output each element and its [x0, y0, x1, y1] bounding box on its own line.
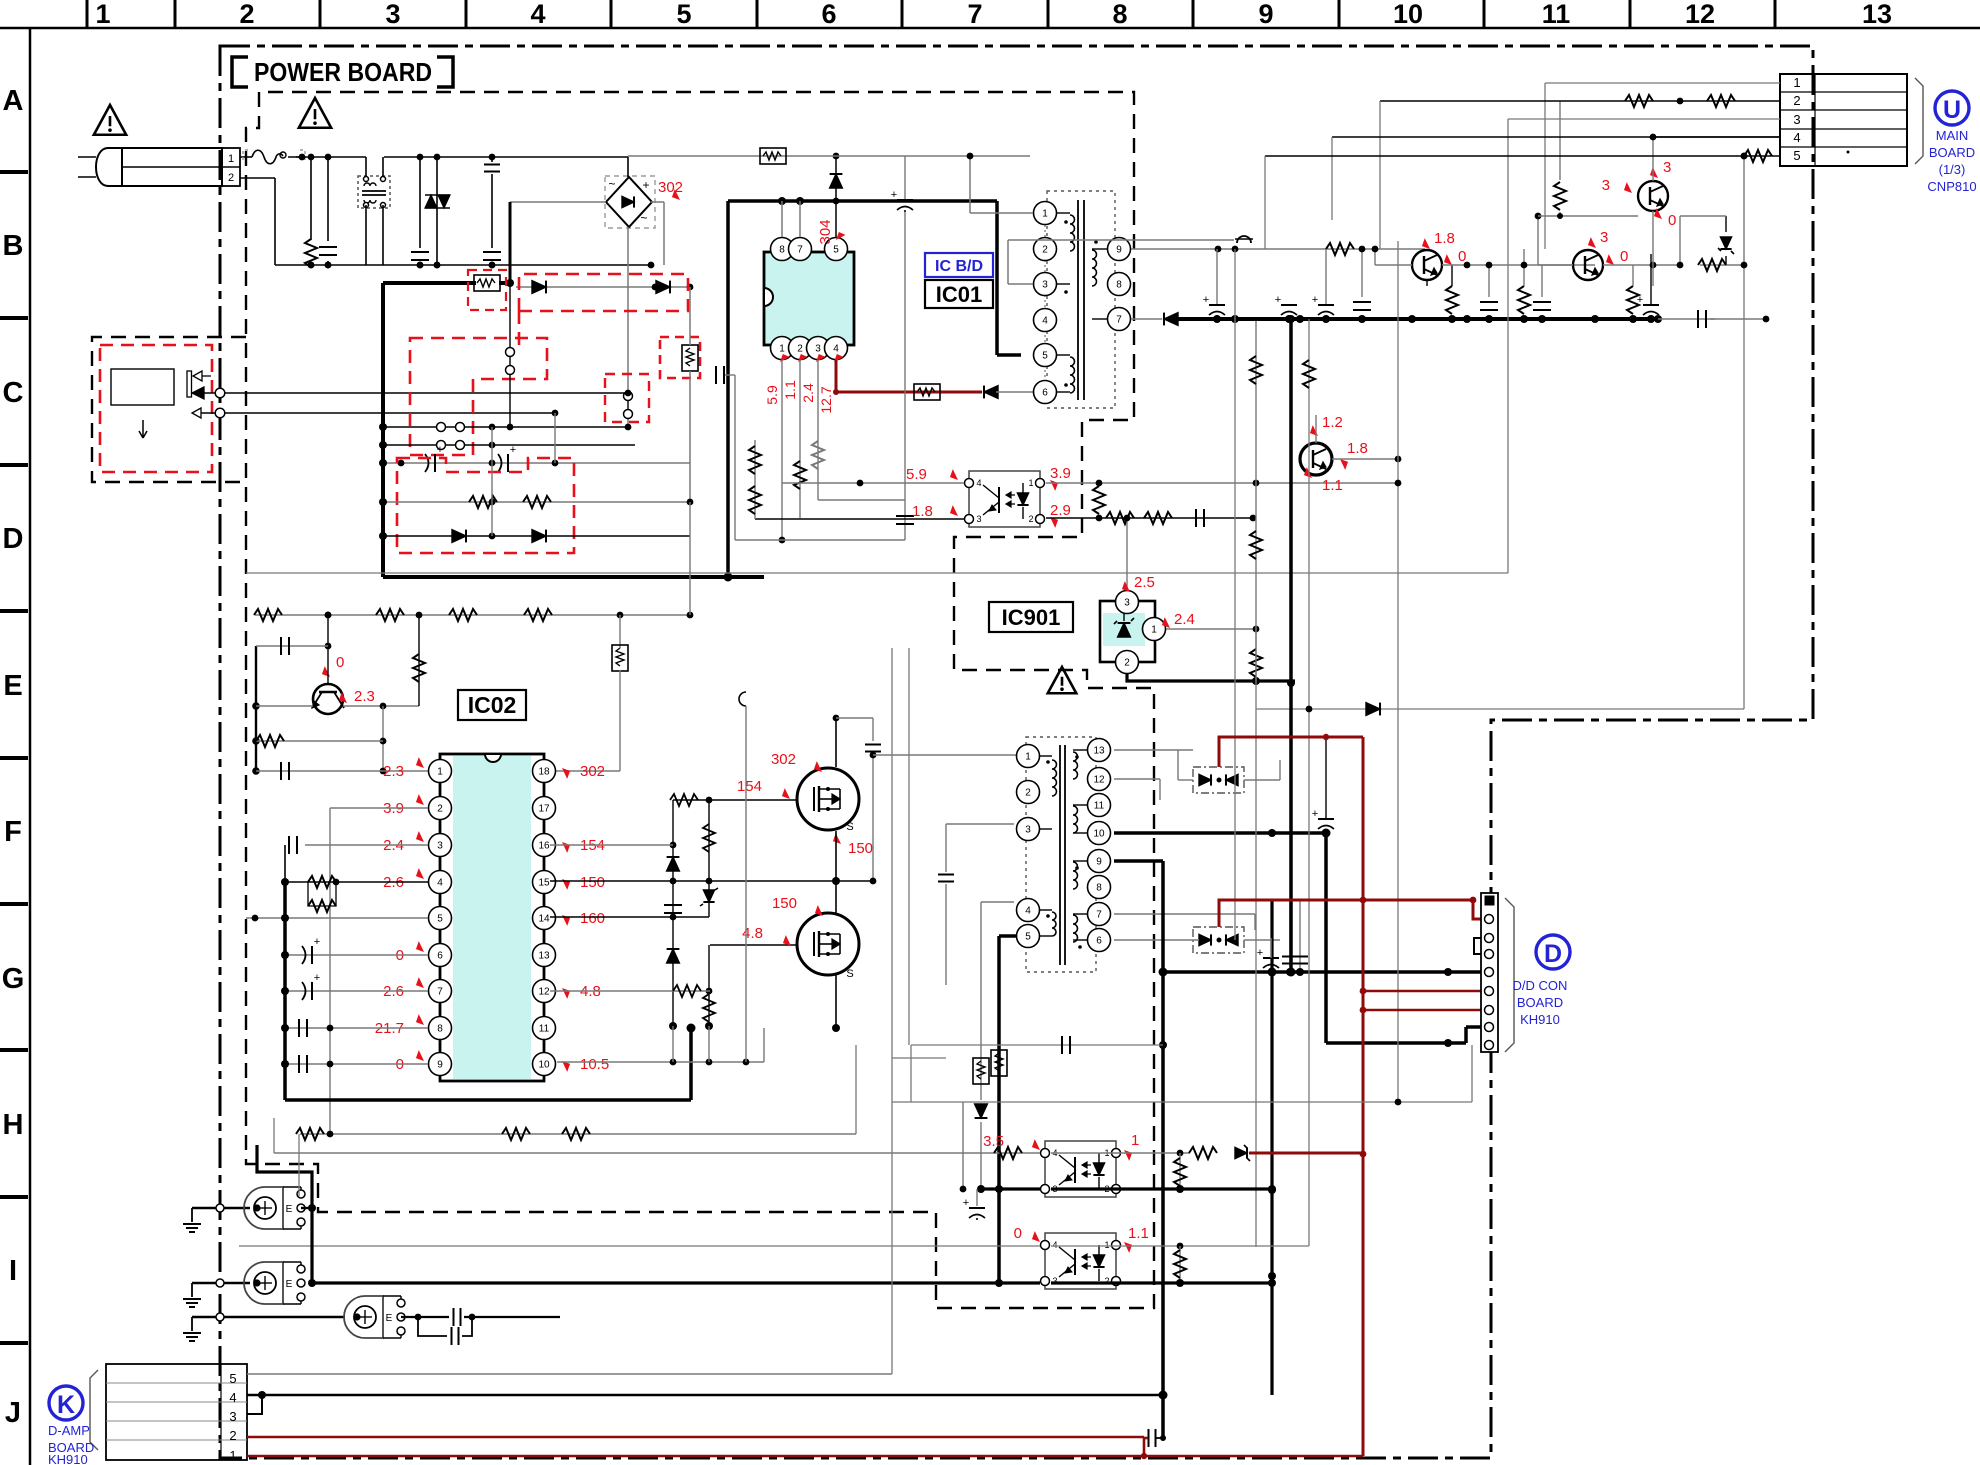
resistor x1180 b [1179, 1246, 1181, 1281]
wire Q3 collector right [1442, 264, 1595, 266]
IC901 body [1100, 601, 1155, 662]
title POWER BOARD [232, 57, 248, 87]
svg-text:A: A [3, 85, 24, 117]
svg-text:5: 5 [676, 0, 691, 29]
svg-text:4: 4 [229, 1390, 236, 1405]
wire PH02 pin3 left thick [981, 1187, 1040, 1190]
resistor x1560 to row2 [1559, 101, 1561, 180]
red dashed box remote sensor [100, 345, 212, 472]
svg-text:4.8: 4.8 [742, 925, 763, 942]
cap pair x1290 x1300 [1289, 900, 1291, 966]
T902 pin 7 [1088, 903, 1111, 926]
thick vert x1326 [1324, 833, 1328, 1043]
riser x709 lower [708, 945, 710, 1026]
vertical link x555 [554, 413, 556, 463]
IR sensor bar [187, 371, 192, 397]
svg-text:2: 2 [797, 344, 803, 355]
wire pin2 down [799, 360, 801, 518]
power board outline (dash-dot) [220, 46, 1813, 1458]
T01 pin 8 [1108, 273, 1131, 296]
wire x981 H row [980, 902, 982, 1100]
wire Q3 emitter [1426, 280, 1428, 286]
contact pair vertical D [624, 392, 633, 401]
svg-text:D-AMP: D-AMP [48, 1423, 90, 1438]
svg-text:10: 10 [1093, 829, 1105, 840]
svg-text:+: + [314, 936, 320, 948]
svg-text:3: 3 [1124, 598, 1130, 609]
wire PH01 pin4 [782, 482, 964, 484]
riser x383 [382, 706, 384, 771]
svg-text:6: 6 [437, 951, 443, 962]
sensor box [111, 369, 174, 405]
riser x873 with cap [872, 718, 874, 741]
riser x946 pin3 net [945, 824, 947, 872]
svg-text:K: K [57, 1391, 75, 1419]
svg-text:IC B/D: IC B/D [935, 258, 983, 275]
svg-text:+: + [1203, 294, 1209, 306]
cap x1152 bottom [1162, 1395, 1164, 1438]
T01 pin 6 [1034, 381, 1057, 404]
wire primary diodes line [516, 286, 690, 288]
svg-text:4: 4 [833, 344, 839, 355]
resistor column x709 [708, 800, 710, 917]
zener x1726 [1725, 216, 1727, 232]
long riser x892 [891, 648, 893, 1058]
svg-text:C: C [3, 377, 24, 409]
svg-text:5: 5 [1042, 351, 1048, 362]
red dashed box diodes [519, 274, 688, 348]
svg-text:1.2: 1.2 [1322, 414, 1343, 431]
thick wire IC01 top rail [728, 199, 997, 203]
wire K pin4 (black) [247, 1394, 1163, 1397]
IC02 pin 4 [429, 871, 452, 894]
boxed resistor x620 [612, 645, 628, 671]
arrow in (filled) [192, 387, 204, 399]
svg-text:12.7: 12.7 [818, 386, 834, 413]
IC02 pin 11 [533, 1017, 556, 1040]
svg-text:2.4: 2.4 [1174, 611, 1195, 628]
column extensions to y1062 [672, 1026, 674, 1062]
transformer T01 outline [1047, 191, 1115, 408]
T902 pin 13 [1088, 739, 1111, 762]
thick wire y1043 to connector [1326, 1041, 1466, 1045]
svg-text:10.5: 10.5 [580, 1056, 609, 1073]
IC01 label box [925, 280, 993, 308]
logo U (blue) [1935, 91, 1969, 125]
svg-text:J: J [5, 1397, 21, 1429]
wire Q901 collector [1315, 415, 1317, 443]
wire D951 left [1114, 749, 1193, 751]
warning symbol W1 [94, 105, 126, 135]
warning symbol W3 [1048, 667, 1077, 693]
wire pin6 pcap [285, 954, 428, 956]
svg-text:2.3: 2.3 [354, 688, 375, 705]
svg-text:+: + [1275, 294, 1281, 306]
thick wire left leg down [381, 283, 385, 577]
svg-text:154: 154 [737, 778, 762, 795]
wire PH03 pin2 right thick [1051, 1281, 1272, 1284]
svg-text:+: + [314, 972, 320, 984]
svg-text:3: 3 [1600, 229, 1608, 246]
T902 pin 11 [1088, 794, 1111, 817]
MOSFET Q1 [797, 768, 859, 830]
bead FL3 [192, 1316, 345, 1318]
svg-text:18: 18 [538, 767, 550, 778]
fusible resistor R (boxed) [474, 275, 500, 291]
svg-text:3: 3 [976, 514, 981, 524]
wire pin2 net [330, 808, 428, 1134]
svg-text:D/D CON: D/D CON [1513, 978, 1568, 993]
wire gate M2 y945 [710, 944, 797, 946]
transistor Q5 [1638, 181, 1668, 211]
thick riser bead net [257, 1145, 312, 1283]
wire x690 down to chain [689, 502, 691, 615]
svg-text:150: 150 [772, 895, 797, 912]
svg-text:3: 3 [1793, 112, 1800, 127]
boxed resistor x999 [991, 1050, 1007, 1076]
svg-text:302: 302 [580, 763, 605, 780]
capacitor C filter top [491, 157, 493, 162]
wire U row3 [1508, 118, 1780, 120]
svg-text:E: E [286, 1204, 293, 1215]
svg-text:MAIN: MAIN [1936, 128, 1969, 143]
wire pin7 pcap [285, 990, 428, 992]
svg-text:304: 304 [817, 219, 834, 244]
power cord [122, 148, 222, 186]
svg-text:1.1: 1.1 [1128, 1225, 1149, 1242]
red vertical x1363 [1362, 737, 1365, 1456]
IC02 pin 8 [429, 1017, 452, 1040]
wire PH02 pin2 right thick [1051, 1187, 1272, 1190]
svg-text:1: 1 [1028, 478, 1033, 488]
thick bus y319 [1178, 317, 1658, 321]
svg-text:5: 5 [229, 1371, 236, 1386]
svg-text:9: 9 [1258, 0, 1273, 29]
wire M1 source [835, 831, 837, 881]
wire T01 pin9 right [1131, 248, 1425, 250]
wire PH01 pin1 right [1046, 482, 1400, 484]
red dashed box around fusible resistor [468, 270, 506, 310]
T01 pin 2 [1034, 238, 1057, 261]
opto coupler PH01 [969, 471, 1040, 527]
bead FL2 [192, 1282, 250, 1284]
T902 pin 9 [1088, 850, 1111, 873]
IC01 body [764, 252, 854, 345]
red vert x1144 [1143, 1437, 1146, 1456]
resistor x1099 [1093, 486, 1105, 514]
pcap bus x1651 [1643, 304, 1659, 306]
wire pin7 up [799, 201, 801, 237]
red wire +B top (DD1 to connector col) [1219, 737, 1363, 767]
svg-text:IC02: IC02 [468, 692, 517, 718]
riser x299 to bead1 [298, 1134, 300, 1196]
long riser x909 [908, 648, 910, 1045]
wire L (live) from CN01 [240, 156, 252, 158]
svg-text:1: 1 [1104, 1240, 1109, 1250]
IC02 pin 18 [533, 760, 556, 783]
svg-text:5: 5 [1025, 932, 1031, 943]
svg-text:5.9: 5.9 [764, 385, 780, 405]
stub x764 [763, 1028, 765, 1062]
wire T902 pin7 right [1114, 913, 1255, 915]
svg-text:POWER BOARD: POWER BOARD [254, 57, 432, 87]
cap bus x1542 [1533, 301, 1551, 303]
svg-text:3: 3 [1025, 825, 1031, 836]
gray vert x1256 down [1255, 709, 1257, 1247]
svg-text:7: 7 [967, 0, 982, 29]
IC02 pin 9 [429, 1053, 452, 1076]
svg-text:2: 2 [437, 804, 443, 815]
svg-text:160: 160 [580, 910, 605, 927]
svg-text:3: 3 [229, 1409, 236, 1424]
resistor R input [310, 157, 312, 240]
svg-text:9: 9 [437, 1060, 443, 1071]
red wire K pin1 [247, 1455, 1363, 1458]
wire Q4 base up [1538, 264, 1573, 266]
resistor bus x1524 [1518, 286, 1530, 314]
wire pin18 to boxres riser [556, 770, 620, 772]
resistor pair feedback [308, 876, 336, 888]
wire Q3 base [1375, 264, 1412, 266]
svg-text:+: + [1257, 947, 1263, 959]
T902 pin 3 [1017, 818, 1040, 841]
svg-text:1: 1 [1042, 209, 1048, 220]
cap right of bus [1658, 318, 1715, 320]
resistor bus x1452 [1446, 286, 1458, 314]
IC02 pin 12 [533, 980, 556, 1003]
T902 pin 5 [1017, 925, 1040, 948]
IC01 pin 1 [771, 337, 794, 360]
IC02 pin 2 [429, 797, 452, 820]
bridge rectifier D01 [605, 176, 655, 228]
svg-text:+: + [963, 1197, 969, 1209]
svg-text:1: 1 [437, 767, 443, 778]
svg-text:13: 13 [1862, 0, 1892, 29]
svg-text:CNP810: CNP810 [1927, 179, 1976, 194]
thick wire IC901 pin2 [1127, 674, 1295, 681]
svg-text:150: 150 [580, 874, 605, 891]
red wire to D-connector rows [1363, 990, 1481, 993]
transistor Q02 [313, 684, 343, 714]
thick wire pin9 net [1114, 859, 1163, 863]
svg-text:BOARD: BOARD [1929, 145, 1975, 160]
svg-text:~: ~ [608, 177, 615, 191]
cap row y463 [383, 462, 690, 464]
T902 pin 12 [1088, 768, 1111, 791]
svg-text:7: 7 [1116, 315, 1122, 326]
svg-text:13: 13 [1093, 746, 1105, 757]
svg-text:12: 12 [1685, 0, 1715, 29]
resistor y540 loop [734, 375, 736, 540]
svg-text:E: E [386, 1313, 393, 1324]
wire pin12 right [550, 990, 710, 992]
svg-text:+: + [437, 444, 443, 456]
T902 pin 8 [1088, 876, 1111, 899]
svg-text:1.1: 1.1 [1322, 477, 1343, 494]
gray wire y1102 [892, 1101, 1472, 1103]
capacitor C across line [419, 157, 421, 248]
wire pin5 up + diode [835, 156, 837, 237]
transistor Q4 [1573, 250, 1603, 280]
wire pin8 up [781, 201, 783, 237]
red dashed box small contact [660, 337, 700, 378]
riser x856 [855, 1045, 857, 1134]
wire Q4 collector [1603, 264, 1680, 266]
svg-text:2.3: 2.3 [383, 763, 404, 780]
wire T902 pin1 left [873, 754, 1016, 756]
wire K pin3 jog [247, 1395, 262, 1414]
resistor row y502 [383, 501, 690, 503]
IC01 pin 7 [789, 238, 812, 261]
svg-text:14: 14 [538, 914, 550, 925]
cap bus x1489 [1480, 301, 1498, 303]
diode row y536 [383, 535, 690, 537]
dashed boundary (primary side) [246, 92, 1154, 1308]
IC01 pin 3 [807, 337, 830, 360]
wire T01 pin1 top [970, 212, 1033, 214]
wire pin3 down [817, 360, 819, 500]
wire U row2 [1380, 100, 1780, 102]
pcap x905 B row [904, 156, 906, 201]
svg-text:1: 1 [779, 344, 785, 355]
wire sensor line 2 [201, 412, 555, 414]
dashed box around C-row connector [92, 337, 246, 482]
svg-text:302: 302 [658, 179, 683, 196]
wire pin16 right [550, 844, 673, 846]
wire sensor line 1 [204, 392, 628, 394]
dual diode D951 (dash-dot box) [1193, 767, 1244, 793]
wire pin15 right y881 [550, 880, 873, 882]
wire pin5 net [246, 917, 428, 919]
red dashed box snubber (stepped) [397, 458, 574, 553]
svg-text:2: 2 [1025, 788, 1031, 799]
resistor line y1134 [300, 1133, 856, 1135]
IC02 pin 13 [533, 944, 556, 967]
svg-text:1.8: 1.8 [912, 503, 933, 520]
transistor Q3 [1412, 250, 1442, 280]
gray line y1045 [911, 1044, 1163, 1046]
T902 pin 10 [1088, 822, 1111, 845]
contact pair h2 [383, 444, 635, 446]
thick bus under IC02 [285, 1098, 691, 1102]
T01 pin 7 [1108, 308, 1131, 331]
wire U row1 [1545, 82, 1780, 84]
svg-text:3: 3 [437, 841, 443, 852]
svg-text:3: 3 [1602, 177, 1610, 194]
svg-text:3.9: 3.9 [1050, 465, 1071, 482]
wire K pin5 (gray) [247, 1373, 892, 1375]
T01 pin 4 [1034, 309, 1057, 332]
svg-text:2: 2 [228, 172, 234, 184]
pcap bus x1326 [1318, 304, 1334, 306]
svg-text:1.8: 1.8 [1434, 230, 1455, 247]
connector D/D CON [1481, 893, 1498, 1052]
wire PH01 pin2 chain [1046, 517, 1253, 519]
T902 pin 6 [1088, 929, 1111, 952]
svg-text:5: 5 [833, 245, 839, 256]
svg-text:2.9: 2.9 [1050, 502, 1071, 519]
thick wire T902 pin5 [999, 934, 1016, 938]
svg-text:7: 7 [1096, 910, 1102, 921]
pcap riser x1326 [1325, 737, 1327, 818]
dual diode D952 (dash-dot box) [1193, 927, 1244, 953]
svg-text:1: 1 [1131, 1132, 1139, 1149]
IC02 pin 10 [533, 1053, 556, 1076]
bead FL1 [192, 1207, 250, 1209]
diode secondary [1164, 313, 1178, 326]
logo D (blue) [1536, 935, 1570, 969]
svg-text:E: E [286, 1279, 293, 1290]
wire PH03 pin3 left thick [312, 1281, 1040, 1284]
IC01 pin 4 [825, 337, 848, 360]
resistor x1180 [1179, 1153, 1181, 1189]
svg-text:11: 11 [1094, 801, 1105, 812]
resistor chain wire y615 [255, 614, 690, 616]
thick bus primary top [383, 281, 476, 285]
svg-text:12: 12 [1093, 775, 1105, 786]
down arrow [139, 420, 147, 438]
thick wire y972 to connector [1163, 970, 1481, 974]
gray vert x746 [745, 706, 747, 1062]
resistor x1256 column [1255, 319, 1257, 483]
fusible resistor vertical (boxed) [682, 345, 698, 371]
wire y615 drop x620 [619, 615, 621, 648]
resistor bus x1633 [1627, 286, 1639, 314]
red wire K pin2 [247, 1436, 1144, 1439]
cap x905 down [904, 212, 906, 540]
wire chain left drop [255, 646, 257, 771]
svg-text:(1/3): (1/3) [1939, 162, 1966, 177]
wire Q5 base [1538, 215, 1638, 217]
svg-text:11: 11 [1542, 0, 1571, 29]
black jog pins [1474, 938, 1481, 954]
svg-text:4: 4 [1793, 130, 1800, 145]
svg-text:302: 302 [771, 751, 796, 768]
gray vert x1398 long [1397, 241, 1399, 1102]
wire PH02 pin1 right [1051, 1152, 1190, 1154]
svg-text:0: 0 [336, 654, 344, 671]
wire pin10 right [557, 1061, 764, 1063]
pcap bus x1217 [1209, 304, 1225, 306]
svg-text:7: 7 [437, 987, 443, 998]
svg-text:9: 9 [1096, 857, 1102, 868]
IC01 pin 2 [789, 337, 812, 360]
connector CN01 pins 1 2 [222, 148, 240, 186]
diode column x673 [672, 800, 674, 1026]
red wire PH02 out [1249, 1152, 1363, 1155]
arrow out (open) [193, 371, 202, 381]
transistor Q901 [1300, 443, 1332, 475]
bead on pin9 wire [1237, 236, 1251, 243]
svg-text:KH910: KH910 [48, 1452, 88, 1465]
connector CNP810 [1780, 74, 1907, 166]
cap on y1102 [1395, 1099, 1402, 1106]
border frame [0, 27, 1980, 30]
ground at FL2 [191, 1283, 193, 1297]
IC901 pin 3 [1116, 591, 1139, 614]
svg-text:0: 0 [1668, 212, 1676, 229]
svg-text:+: + [1312, 808, 1318, 820]
ground at FL1 [191, 1208, 193, 1222]
resistor on pin9 wire [1326, 243, 1354, 255]
svg-text:2: 2 [1042, 245, 1048, 256]
contact pair h1 [383, 426, 628, 428]
svg-text:2: 2 [1028, 514, 1033, 524]
wire D952 right [1244, 939, 1280, 941]
svg-text:B: B [3, 230, 24, 262]
wire T902 pin3 left [946, 823, 1014, 825]
diode to T01 pin6 [984, 386, 998, 399]
